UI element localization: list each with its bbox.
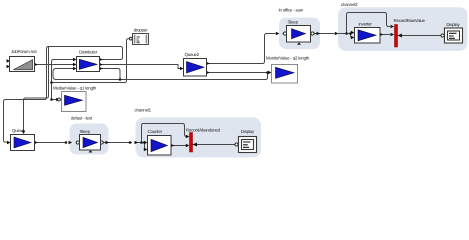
svg-text:In office - saw: In office - saw	[279, 8, 304, 13]
svg-text:Distributer: Distributer	[79, 49, 98, 54]
svg-text:Display: Display	[446, 22, 460, 27]
svg-text:Display: Display	[241, 129, 255, 134]
svg-text:MedianValue - q1 length: MedianValue - q1 length	[53, 85, 97, 90]
svg-text:MonitorValue - q2 length: MonitorValue - q2 length	[266, 56, 310, 61]
svg-text:dropper: dropper	[134, 28, 149, 33]
svg-text:Queue: Queue	[12, 128, 25, 133]
svg-text:RecordRawValue: RecordRawValue	[394, 18, 426, 23]
svg-text:JobParam rnd: JobParam rnd	[11, 49, 37, 54]
svg-text:Counter: Counter	[148, 129, 163, 134]
svg-text:Sleep: Sleep	[288, 19, 299, 24]
svg-text:inverter: inverter	[359, 21, 373, 26]
svg-text:channel2: channel2	[341, 2, 358, 7]
svg-text:Sleep: Sleep	[80, 129, 91, 134]
svg-text:RecordAbandoned: RecordAbandoned	[186, 127, 221, 132]
svg-text:defaut - test: defaut - test	[71, 116, 93, 121]
svg-text:channel1: channel1	[135, 107, 152, 112]
svg-text:Queue2: Queue2	[185, 52, 200, 57]
